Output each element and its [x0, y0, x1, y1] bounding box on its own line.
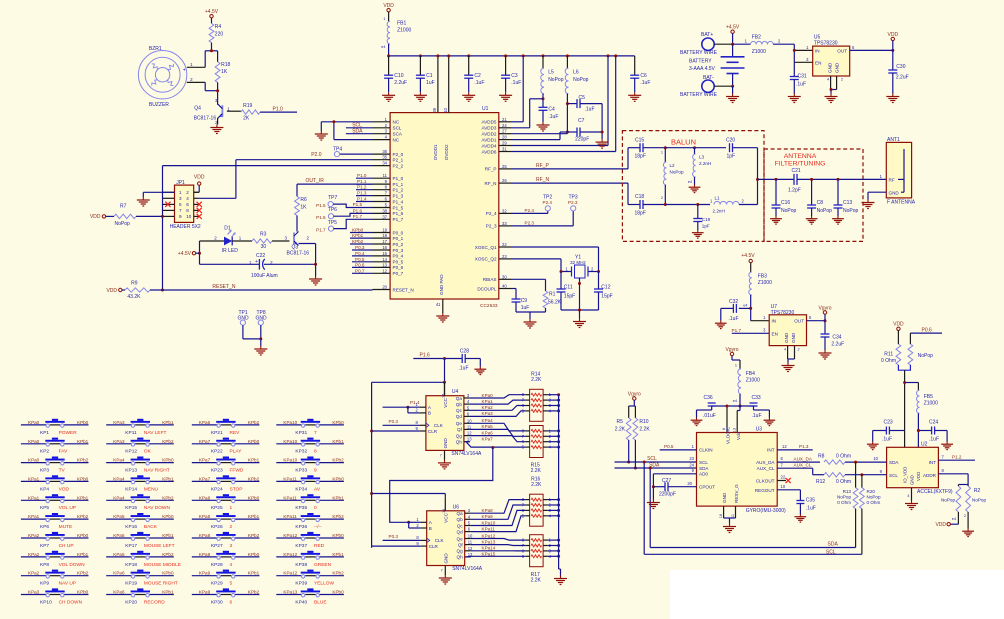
IC U2 ACCEL(KXTF9) [887, 442, 953, 495]
svg-text:2.2nH: 2.2nH [699, 161, 711, 166]
svg-text:TPS78230: TPS78230 [771, 310, 795, 316]
svg-text:NAV UP: NAV UP [59, 581, 77, 587]
svg-text:SDA: SDA [699, 466, 709, 471]
U1 pin 31 AVDD6 [482, 147, 511, 155]
capacitor C7 220pF [567, 118, 602, 143]
svg-text:FILTER/TUNING: FILTER/TUNING [775, 160, 826, 167]
wire P2.2 rail / JP1 vertical [161, 166, 373, 292]
switch KP23 FFWD [192, 457, 260, 474]
switch KP38 GREEN [276, 551, 344, 568]
capacitor C16 NoPop [772, 179, 797, 216]
capacitor C12 15pF [594, 272, 613, 311]
svg-text:0 Ohm: 0 Ohm [836, 479, 851, 485]
svg-text:AVDD2: AVDD2 [482, 132, 497, 137]
svg-text:7: 7 [440, 453, 442, 457]
svg-text:MOUSE MIDDLE: MOUSE MIDDLE [144, 562, 181, 568]
wire R15 to bus [547, 429, 560, 432]
svg-text:13: 13 [467, 437, 472, 442]
svg-text:AVDD4: AVDD4 [482, 143, 497, 148]
svg-text:CH UP: CH UP [59, 543, 74, 549]
svg-text:P1.6: P1.6 [316, 215, 326, 220]
U1 pin 15 P0_4 [373, 251, 404, 259]
svg-text:P1.0: P1.0 [273, 106, 284, 112]
svg-text:3: 3 [179, 196, 182, 201]
svg-text:KPb1: KPb1 [352, 233, 364, 238]
svg-text:C1: C1 [426, 73, 433, 79]
svg-text:Qg: Qg [456, 433, 463, 438]
svg-text:5: 5 [179, 202, 182, 207]
svg-text:2: 2 [186, 190, 189, 195]
svg-text:KPb2: KPb2 [77, 514, 89, 519]
svg-text:KPa9: KPa9 [199, 552, 211, 557]
svg-text:KPb2: KPb2 [162, 552, 174, 557]
U3 pin 9 AD0 [653, 468, 696, 487]
svg-text:KPa7: KPa7 [199, 439, 211, 444]
svg-text:KPa0: KPa0 [482, 393, 494, 398]
wire U5 GND pins [830, 76, 837, 94]
svg-text:SN74LV164A: SN74LV164A [452, 566, 483, 572]
svg-text:EN: EN [815, 60, 821, 65]
ground JP1 [137, 197, 150, 206]
svg-text:2: 2 [798, 348, 800, 352]
svg-text:11: 11 [383, 173, 388, 178]
capacitor C31 .1uF [790, 62, 807, 93]
svg-text:KPa2: KPa2 [482, 405, 494, 410]
U1 pin 28 AVDD1 [482, 135, 511, 143]
svg-text:KPa4: KPa4 [482, 418, 494, 423]
net KPa9 wire [471, 505, 526, 519]
svg-text:P1.2: P1.2 [357, 185, 367, 190]
svg-text:R19: R19 [243, 103, 252, 109]
capacitor C21 1.2pF [788, 168, 801, 194]
net KPa5 wire [470, 424, 526, 436]
svg-text:CLR: CLR [428, 429, 438, 434]
svg-text:e4: e4 [381, 45, 385, 49]
svg-text:Qd: Qd [457, 529, 464, 534]
svg-text:KP28: KP28 [211, 562, 223, 568]
switch KP37 RED [276, 532, 344, 549]
U1 pin 22 XOSC_Q1 [475, 242, 511, 250]
svg-text:NoPop: NoPop [573, 77, 589, 83]
svg-text:220pF: 220pF [575, 137, 589, 143]
crystal Y1 32 MHz [561, 254, 599, 278]
svg-text:Vgyro: Vgyro [818, 306, 831, 312]
svg-text:OK: OK [144, 449, 152, 455]
IC U1 CC2533 [390, 106, 499, 309]
svg-text:12: 12 [468, 546, 473, 551]
wire JP1 pin1 to ground [143, 192, 174, 197]
svg-text:FAV: FAV [59, 449, 69, 455]
svg-text:KPa5: KPa5 [113, 552, 125, 557]
wire C5/C7 ground leg [601, 104, 604, 140]
svg-text:KPa8: KPa8 [482, 508, 494, 513]
svg-text:KP25: KP25 [211, 505, 223, 511]
svg-text:C35: C35 [806, 498, 815, 504]
svg-text:P0_3: P0_3 [393, 248, 404, 253]
svg-text:20: 20 [687, 481, 692, 486]
svg-text:C12: C12 [601, 285, 610, 291]
svg-text:P1_7: P1_7 [393, 217, 404, 222]
svg-text:CLK: CLK [435, 538, 445, 543]
svg-text:1: 1 [383, 17, 385, 21]
svg-text:2.2uF: 2.2uF [394, 80, 407, 86]
wire SCL drop to bus [643, 461, 862, 555]
capacitor C34 2.2uF [821, 321, 845, 350]
svg-text:KP24: KP24 [211, 486, 223, 492]
svg-text:KPa13: KPa13 [283, 590, 297, 595]
resistor R3 30 [232, 232, 272, 250]
svg-text:Qh: Qh [457, 555, 464, 560]
svg-text:KPa9: KPa9 [482, 514, 494, 519]
svg-text:.1uF: .1uF [640, 80, 650, 86]
svg-text:P0.4: P0.4 [355, 251, 365, 256]
svg-text:30: 30 [502, 274, 507, 279]
net P1.2 stub [356, 185, 373, 190]
net P1.4 wire to U4 A/B [383, 400, 420, 413]
ground U4 [438, 460, 451, 469]
svg-text:IN: IN [815, 48, 820, 53]
switch KP22 PLAY [192, 438, 260, 455]
svg-text:12: 12 [782, 444, 787, 449]
svg-text:SCL: SCL [699, 460, 708, 465]
svg-text:KPa7: KPa7 [482, 437, 494, 442]
U1 pin 33 P2_3 [486, 221, 511, 229]
svg-text:R13: R13 [843, 489, 852, 494]
power VDD (JP1) [194, 175, 205, 193]
svg-text:P1_0: P1_0 [393, 176, 404, 181]
inductor L6 NoPop [565, 56, 588, 94]
svg-text:P1.6: P1.6 [353, 208, 363, 213]
svg-text:KP13: KP13 [125, 468, 137, 474]
ground C32 [715, 321, 727, 329]
svg-text:KPa12: KPa12 [283, 552, 297, 557]
ground C3 [499, 92, 512, 101]
svg-text:RF_N: RF_N [485, 181, 497, 186]
svg-text:23: 23 [689, 456, 694, 461]
testpoint TP5 P1.7 [316, 214, 372, 232]
svg-text:P1.5: P1.5 [353, 202, 363, 207]
svg-text:GND: GND [835, 62, 840, 73]
IC U3 GYRO(IMU-3000) [697, 426, 787, 514]
IC U6 SN74LV164A [416, 504, 482, 572]
svg-text:2.2K: 2.2K [531, 377, 542, 383]
IC U4 SN74LV164A [416, 389, 482, 457]
svg-text:3-AAA 4.5V: 3-AAA 4.5V [689, 66, 716, 72]
wire IO_VDD pin [904, 431, 906, 448]
svg-text:Qa: Qa [457, 511, 464, 516]
svg-text:R5: R5 [617, 419, 624, 425]
ground C24 [941, 442, 953, 450]
U3 pin 24 SDA [689, 462, 694, 467]
wire balun top rail [665, 146, 726, 149]
resistor R2 NoPop pair [941, 485, 987, 513]
ground C27 [647, 500, 660, 509]
svg-text:KPa10: KPa10 [482, 520, 496, 525]
wire CLR to U6 [372, 545, 421, 547]
testpoint TP1 GND [238, 310, 261, 339]
wire cascade U4 Qh to U6 A/B [390, 446, 495, 522]
svg-text:CC2533: CC2533 [480, 303, 498, 309]
svg-text:U4: U4 [452, 389, 459, 395]
net P0.5 stub [352, 257, 373, 262]
svg-text:MOUSE RIGHT: MOUSE RIGHT [144, 581, 178, 587]
svg-text:2.2K: 2.2K [531, 468, 542, 474]
svg-text:VDD: VDD [90, 214, 101, 220]
net KPa0 wire [470, 393, 526, 398]
ground C36 [691, 418, 703, 426]
svg-text:KPa15: KPa15 [482, 552, 496, 557]
svg-text:37: 37 [382, 214, 387, 219]
svg-text:34: 34 [382, 161, 387, 166]
svg-text:KP32: KP32 [295, 449, 307, 455]
svg-text:MOUSE LEFT: MOUSE LEFT [144, 543, 175, 549]
svg-text:KPa11: KPa11 [283, 476, 297, 481]
svg-text:Qa: Qa [456, 396, 463, 401]
wire U7 OUT to Vgyro [807, 319, 827, 322]
U1 pin 39 DVDD1 [432, 56, 438, 113]
svg-text:NoPop: NoPop [843, 208, 859, 214]
ground C6 [628, 92, 641, 101]
svg-text:AUX_CL: AUX_CL [794, 462, 812, 467]
svg-text:24: 24 [502, 123, 507, 128]
ground C13 [832, 216, 844, 224]
ground battery [726, 86, 739, 102]
switch KP34 AV [276, 475, 344, 492]
svg-text:4: 4 [186, 196, 189, 201]
wire AVDD5 via [511, 56, 523, 122]
net P0.3 stub [352, 245, 373, 250]
wire R17 to bus [547, 544, 560, 547]
wire buzzer pin1 [187, 66, 205, 68]
testpoint TP3 P2.3 [511, 195, 578, 226]
U1 pin 37 P1_7 [373, 214, 404, 222]
svg-text:2.2uF: 2.2uF [831, 342, 844, 348]
svg-text:KPa10: KPa10 [283, 420, 297, 425]
svg-text:KPb0: KPb0 [248, 552, 260, 557]
wire Q4 collector [217, 100, 219, 104]
switch KP4 VOD [21, 475, 89, 492]
svg-text:Z1000: Z1000 [752, 49, 766, 55]
svg-text:KPa5: KPa5 [113, 533, 125, 538]
svg-text:100uF Alum: 100uF Alum [251, 273, 278, 279]
connector BAT+ battery wire [680, 32, 733, 56]
svg-text:32 MHz: 32 MHz [570, 260, 587, 265]
svg-text:P0.3: P0.3 [389, 419, 399, 424]
net SDA line (gyro) [615, 462, 697, 468]
svg-text:YELLOW: YELLOW [314, 581, 334, 587]
capacitor C13 NoPop [834, 179, 859, 216]
switch KP39 YELLOW [276, 570, 344, 587]
net KPa15 wire [466, 552, 526, 557]
switch KP7 CH UP [21, 532, 89, 549]
U2 pin 8 ADDR [938, 468, 968, 485]
svg-text:KP5: KP5 [40, 505, 49, 511]
svg-text:GND: GND [910, 475, 915, 485]
svg-text:SDA: SDA [352, 128, 363, 134]
U1 pin 6 P1_4 [373, 197, 404, 205]
svg-text:KP6: KP6 [40, 524, 49, 530]
page margin white area [670, 570, 1004, 619]
capacitor C24 .1uF [917, 420, 947, 443]
svg-text:1K: 1K [300, 204, 307, 210]
svg-text:11: 11 [467, 424, 472, 429]
svg-text:4: 4 [907, 494, 909, 498]
capacitor C35 .1uF [796, 498, 815, 515]
ground TP1/TP8 [254, 337, 267, 355]
svg-text:BATTERY WIRE: BATTERY WIRE [680, 50, 718, 56]
wire XOSC_Q1 [511, 247, 599, 272]
switch KP1 POWER [21, 419, 89, 436]
svg-text:HEADER 5X2: HEADER 5X2 [170, 224, 201, 230]
svg-text:C21: C21 [792, 168, 801, 174]
svg-text:GND: GND [256, 315, 268, 321]
switch KP10 CH DOWN [21, 588, 89, 605]
capacitor C36 .01uF [697, 395, 716, 419]
svg-text:Qe: Qe [456, 421, 463, 426]
svg-text:C28: C28 [460, 348, 469, 354]
svg-text:KP12: KP12 [125, 449, 137, 455]
svg-text:NoPop: NoPop [867, 495, 881, 500]
capacitor C23 .1uF [873, 420, 905, 443]
svg-text:--/--: --/-- [314, 524, 322, 530]
svg-text:MENU: MENU [144, 486, 159, 492]
svg-text:11: 11 [468, 540, 473, 545]
svg-text:P0.6: P0.6 [355, 262, 365, 267]
svg-text:+: + [255, 259, 258, 265]
net KPa1 wire [470, 399, 526, 404]
svg-text:GYRO(IMU-3000): GYRO(IMU-3000) [746, 508, 786, 514]
wire VLOGIC pin [722, 405, 729, 433]
switch KP2 FAV [21, 438, 89, 455]
svg-text:KPa0: KPa0 [28, 439, 40, 444]
svg-text:RESET_N: RESET_N [212, 284, 235, 290]
U1 pin 18 P0_1 [373, 233, 404, 241]
svg-text:2.2uF: 2.2uF [896, 75, 909, 81]
svg-text:KPb2: KPb2 [332, 571, 344, 576]
svg-text:FFWD: FFWD [230, 468, 244, 474]
svg-text:KPa8: KPa8 [199, 514, 211, 519]
wire R17 to bus [547, 555, 560, 558]
wire AVDD1 via [511, 132, 567, 140]
net KPa2 wire [470, 405, 526, 410]
svg-text:GND: GND [791, 332, 796, 343]
ground L3 [689, 185, 701, 193]
svg-text:RESV_G: RESV_G [734, 484, 739, 503]
svg-text:U2: U2 [921, 442, 928, 448]
U1 pin 38 P1_6 [373, 208, 404, 216]
svg-text:KP16: KP16 [125, 524, 137, 530]
net P0.3 wire to U6 CLK [383, 534, 421, 541]
svg-text:KPb2: KPb2 [248, 476, 260, 481]
svg-text:VDD: VDD [893, 322, 904, 328]
svg-text:C5: C5 [579, 95, 586, 101]
svg-text:9: 9 [314, 468, 317, 474]
resistor R11 0 Ohm [881, 344, 901, 365]
switch KP16 BACK [106, 513, 174, 530]
svg-text:P1.7: P1.7 [732, 328, 742, 333]
resistor R7 NoPop [114, 204, 136, 228]
wire FB2 to U5 [773, 44, 813, 62]
svg-text:Qb: Qb [456, 402, 463, 407]
svg-text:P2.4: P2.4 [543, 200, 553, 205]
svg-text:Qc: Qc [457, 523, 464, 528]
IC U5 TPS78230 [806, 34, 855, 81]
svg-text:DVDD2: DVDD2 [444, 144, 449, 160]
svg-text:Qe: Qe [457, 536, 464, 541]
net KPb2 stub [350, 239, 373, 244]
U1 pin 27 AVDD2 [482, 129, 511, 137]
U1 pin 5 P1_5 [373, 203, 404, 211]
net RF_P wire [511, 163, 628, 169]
svg-text:12: 12 [467, 431, 472, 436]
svg-text:P2_4: P2_4 [486, 211, 497, 216]
svg-text:+4.5V: +4.5V [741, 253, 755, 259]
svg-text:KPa7: KPa7 [199, 458, 211, 463]
svg-text:TP7: TP7 [328, 195, 337, 201]
wire C9/R1 ground rail [516, 308, 546, 319]
svg-text:+: + [183, 67, 186, 73]
power VDD (R7) [90, 214, 114, 220]
ground C5/C7 [596, 139, 609, 148]
svg-text:AV: AV [314, 486, 321, 492]
svg-text:26: 26 [502, 178, 507, 183]
net P0.4 stub [352, 251, 373, 256]
svg-text:18pF: 18pF [635, 154, 646, 160]
svg-text:4: 4 [827, 78, 829, 82]
U1 pin 30 RBIAS [483, 274, 511, 282]
svg-text:KPa11: KPa11 [482, 526, 496, 531]
svg-text:KPa8: KPa8 [199, 495, 211, 500]
svg-text:CLKIN: CLKIN [699, 448, 713, 453]
ground U2 [905, 501, 918, 510]
wire R11 merge [898, 365, 910, 431]
svg-text:KPa3: KPa3 [113, 420, 125, 425]
svg-text:P0_6: P0_6 [393, 265, 404, 270]
wire R14 to bus [547, 399, 560, 402]
svg-text:VOL DOWN: VOL DOWN [59, 562, 85, 568]
resistor R6 1K [295, 196, 308, 215]
svg-text:REGOUT: REGOUT [755, 488, 775, 493]
switch KP8 VOL DOWN [21, 551, 89, 568]
svg-text:VLOGIC: VLOGIC [726, 426, 731, 444]
U3 pin 7 AUX_CL [777, 462, 820, 474]
capacitor C30 2.2uF [888, 50, 908, 93]
resistor R1 56.2K [543, 291, 562, 308]
wire XOSC_Q2 [511, 259, 561, 272]
switch KP29 5 [192, 570, 260, 587]
svg-text:KP21: KP21 [211, 430, 223, 436]
capacitor C2 .1uF [464, 56, 484, 92]
svg-text:10: 10 [873, 456, 878, 461]
ground U6 [439, 575, 452, 584]
svg-text:21: 21 [502, 117, 507, 122]
inductor L1 2.2nH [710, 196, 758, 214]
svg-text:.1uF: .1uF [729, 316, 739, 322]
ground C31 [788, 94, 801, 103]
U3 pin 1 CLKIN / net P0.5 [660, 444, 697, 450]
wire balun right [756, 148, 759, 205]
svg-text:14: 14 [382, 257, 387, 262]
svg-text:P1.4: P1.4 [410, 400, 420, 405]
switch KP20 RECORD [106, 588, 174, 605]
net P0.3 wire to U4 CLK [383, 419, 420, 426]
svg-text:SCL: SCL [393, 126, 402, 131]
svg-text:P1_2: P1_2 [393, 188, 404, 193]
no-ERC marks JP1 [165, 202, 202, 219]
svg-text:SCA: SCA [393, 132, 403, 137]
svg-text:B: B [428, 411, 431, 416]
svg-text:.1uF: .1uF [548, 114, 558, 120]
